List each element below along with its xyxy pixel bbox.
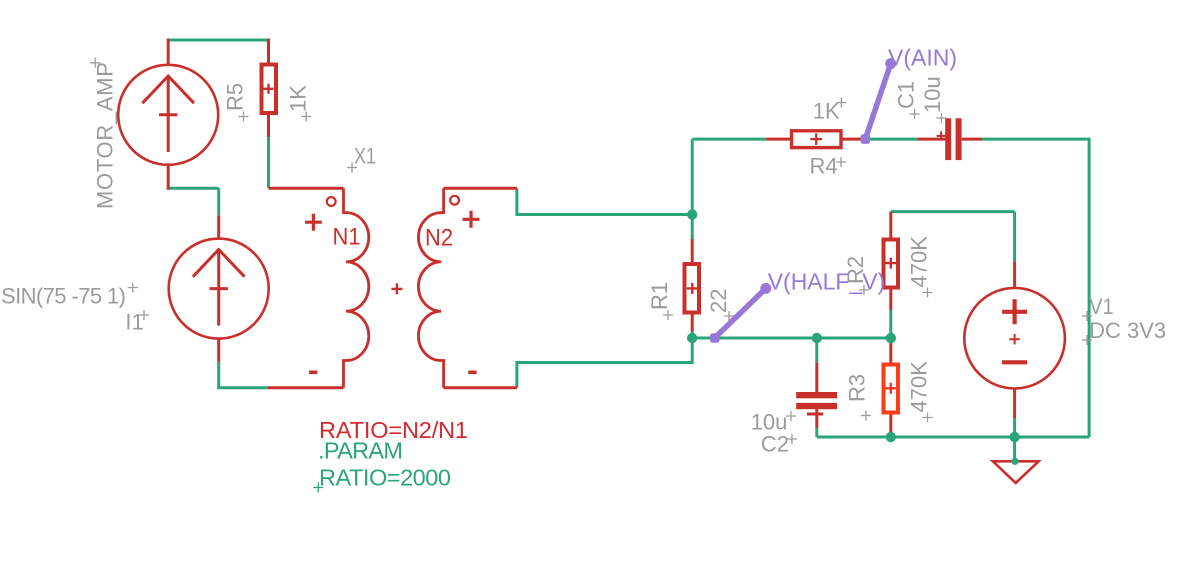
svg-text:RATIO=2000: RATIO=2000 xyxy=(319,465,451,491)
svg-text:N1: N1 xyxy=(333,224,361,251)
svg-text:C1: C1 xyxy=(894,81,919,109)
svg-text:SIN(75 -75 1): SIN(75 -75 1) xyxy=(1,284,126,309)
svg-text:X1: X1 xyxy=(354,144,376,169)
svg-text:N2: N2 xyxy=(425,225,453,252)
svg-text:.PARAM: .PARAM xyxy=(318,438,403,464)
svg-text:V(HALF_V): V(HALF_V) xyxy=(768,268,886,294)
svg-text:DC 3V3: DC 3V3 xyxy=(1089,318,1166,343)
svg-text:MOTOR_AMP: MOTOR_AMP xyxy=(93,62,118,209)
svg-text:1K: 1K xyxy=(813,99,840,124)
svg-text:10u: 10u xyxy=(920,76,945,113)
svg-text:470K: 470K xyxy=(907,236,932,288)
svg-text:470K: 470K xyxy=(907,361,932,413)
svg-text:V1: V1 xyxy=(1089,294,1114,319)
svg-text:R3: R3 xyxy=(845,374,870,402)
svg-text:R4: R4 xyxy=(810,154,838,179)
svg-text:I1: I1 xyxy=(125,309,143,334)
svg-text:V(AIN): V(AIN) xyxy=(888,44,957,70)
svg-text:1K: 1K xyxy=(286,85,311,112)
svg-text:C2: C2 xyxy=(761,432,789,457)
svg-text:R1: R1 xyxy=(647,282,672,310)
svg-text:R5: R5 xyxy=(223,83,248,111)
svg-text:22: 22 xyxy=(706,289,731,313)
